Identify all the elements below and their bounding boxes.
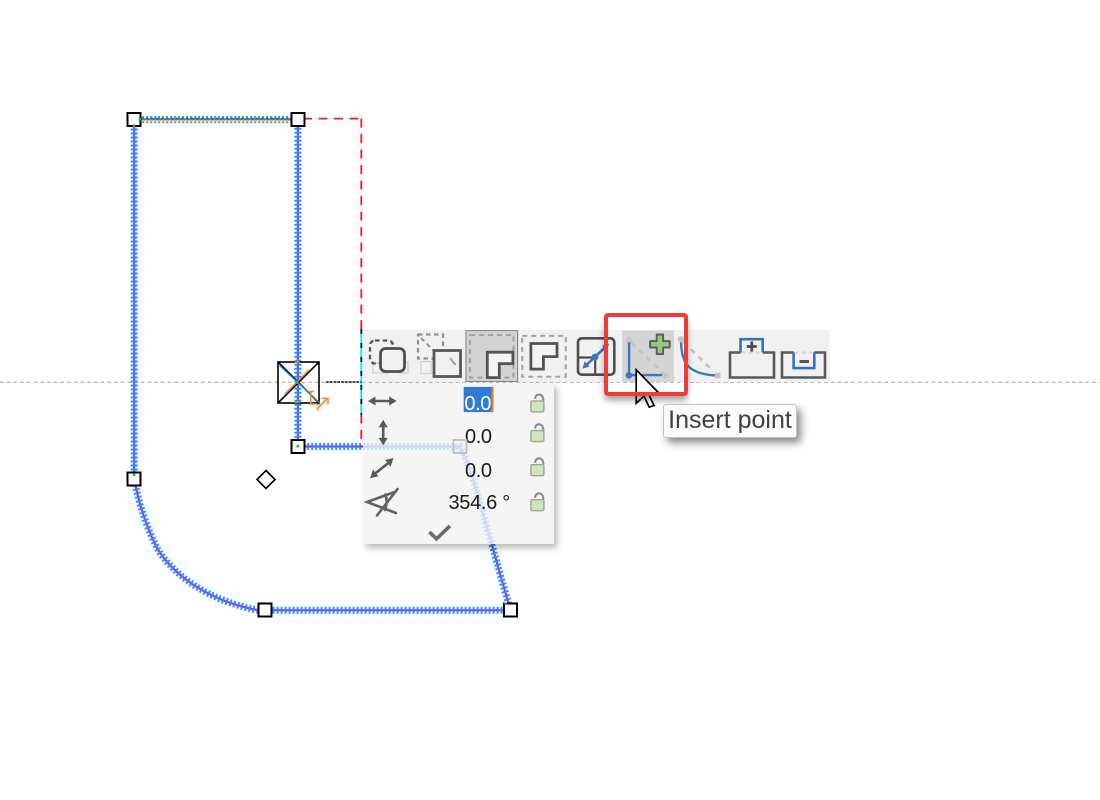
red annotation box: [604, 313, 689, 396]
wire path outline zipper blue rungs: [134, 120, 510, 611]
row1 lock: [530, 394, 543, 411]
diamond marker: [257, 471, 275, 489]
row4 angle icon: [367, 489, 398, 516]
orange origin glyph bracket: [310, 392, 329, 409]
red dashed bounding box top edge: [303, 118, 361, 120]
toolbar: [363, 330, 830, 382]
svg-text:°: °: [502, 492, 510, 514]
row3 diagonal arrow icon: [370, 458, 393, 478]
properties panel: [363, 383, 554, 544]
black dashed measure line: [326, 381, 361, 383]
svg-text:354.6: 354.6: [448, 492, 497, 514]
row2 height arrow icon: [378, 419, 387, 445]
red dashed bounding box right edge upper: [360, 119, 362, 329]
svg-text:0.0: 0.0: [465, 460, 492, 482]
X-box transform origin: [278, 362, 319, 403]
node handle grey square overlay: [450, 437, 472, 459]
red dashed bounding box right edge lower: [360, 415, 362, 448]
wire top edge green dashed: [141, 117, 291, 119]
svg-text:2: 2: [316, 403, 321, 413]
apply checkmark: [429, 525, 450, 538]
row4 lock: [530, 493, 543, 510]
toolbar icon3 move point pressed: [466, 330, 518, 381]
toolbar icon4 move corner: [522, 335, 566, 376]
X-box orange edge ticks: [295, 361, 300, 363]
toolbar icon8 add shape: [730, 339, 774, 377]
X-box blue diagonal: [280, 366, 320, 403]
node handle squares black: [128, 113, 518, 617]
toolbar icon5 scale diagonal: [578, 338, 614, 374]
toolbar icon7 insert point on curve: [678, 336, 721, 378]
row1 selected value field: [463, 386, 493, 411]
row1 width arrow icon: [368, 396, 397, 405]
X-box green center dot: [295, 381, 298, 384]
mouse cursor: [630, 365, 666, 415]
guide line horizontal dotted: [0, 381, 1100, 383]
tooltip Insert point: [663, 404, 797, 438]
row3 lock: [530, 458, 543, 475]
wire path outline magenta center: [134, 120, 510, 611]
toolbar icon1 select tool: [370, 340, 408, 373]
node cyan segment of right edge: [360, 329, 362, 415]
node handle grey square: [454, 440, 467, 453]
node black dashes over cyan: [360, 329, 362, 415]
svg-text:0.0: 0.0: [464, 393, 491, 415]
toolbar icon6 insert point pressed: [622, 330, 674, 382]
X-box orange diagonal: [285, 370, 309, 394]
green control dots: [133, 118, 507, 605]
row2 lock: [530, 424, 543, 441]
wire top edge yellow line: [141, 120, 291, 122]
toolbar icon9 subtract shape: [782, 352, 825, 377]
toolbar icon2 scale tool: [418, 334, 461, 376]
